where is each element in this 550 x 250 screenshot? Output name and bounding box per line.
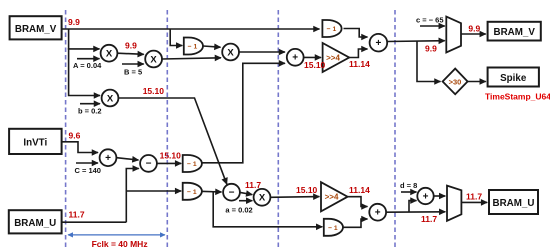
wire D1 output to Spike xyxy=(468,81,486,83)
adder P4 xyxy=(417,188,433,204)
wire constant a into X5 xyxy=(239,200,252,202)
svg-text:X: X xyxy=(107,93,114,104)
svg-text:>>4: >>4 xyxy=(326,54,340,63)
wire constant B into X2 xyxy=(122,63,144,65)
svg-text:9.9: 9.9 xyxy=(68,17,80,27)
inverter gate G3 xyxy=(183,155,202,172)
adder A1 xyxy=(100,149,117,166)
wire M2 output to multiplier X5 xyxy=(240,192,252,194)
svg-text:+: + xyxy=(423,191,429,202)
inverter gate G1 xyxy=(184,38,203,55)
wire P3 output to mux MX2 xyxy=(386,211,445,213)
subtractor M2 xyxy=(223,184,240,201)
adder P1 xyxy=(287,49,304,66)
svg-text:d = 8: d = 8 xyxy=(400,181,417,190)
svg-text:Fclk = 40 MHz: Fclk = 40 MHz xyxy=(92,239,148,249)
subtractor M1 xyxy=(140,155,157,172)
svg-text:BRAM_U: BRAM_U xyxy=(14,218,56,229)
pipeline stage dashed line 3 xyxy=(277,10,279,247)
wire bv from X3 diagonal into M2 xyxy=(118,98,226,184)
svg-text:− 1: − 1 xyxy=(188,44,198,51)
wire u up into M1 xyxy=(126,169,139,223)
wire X5 output to shifter T2 xyxy=(271,196,320,199)
Spike output box xyxy=(488,68,539,87)
svg-text:15.10: 15.10 xyxy=(160,151,182,161)
svg-text:X: X xyxy=(227,47,234,58)
wire T1 output to adder P2 xyxy=(349,49,367,58)
multiplier X4 xyxy=(222,44,239,61)
svg-text:−: − xyxy=(229,187,235,198)
svg-text:9.6: 9.6 xyxy=(69,131,81,141)
svg-text:11.14: 11.14 xyxy=(349,59,370,69)
wire P1 output to shifter T1 xyxy=(304,56,321,58)
svg-text:c = − 65: c = − 65 xyxy=(416,16,444,25)
wire v main bus from BRAM_V to inverter G2 xyxy=(62,28,320,30)
adder P2 xyxy=(370,34,388,52)
multiplier X1 xyxy=(101,45,118,62)
inverter gate G2 xyxy=(322,20,341,37)
svg-text:+: + xyxy=(292,53,298,64)
wire G1 output to X4 xyxy=(203,46,221,47)
wire v branch down to multiplier X1 xyxy=(69,29,100,49)
multiplier X3 xyxy=(102,90,119,107)
wire MX1 output to BRAM_V out xyxy=(461,33,486,35)
inverter gate G4 xyxy=(183,183,202,200)
svg-text:X: X xyxy=(150,54,157,65)
svg-text:+: + xyxy=(105,153,111,164)
svg-text:15.10: 15.10 xyxy=(304,60,326,70)
wire T2 output to adder P3 xyxy=(348,197,368,207)
BRAM_U output box xyxy=(489,190,538,214)
wire BRAM_U output xyxy=(62,221,127,223)
wire constant C into A1 xyxy=(76,162,98,164)
mux MX2 xyxy=(447,186,461,221)
wire constant A into X1 xyxy=(77,58,100,60)
wire P2 output to mux MX1 xyxy=(387,40,445,43)
svg-text:BRAM_U: BRAM_U xyxy=(493,198,535,209)
wire branch down to comparator D1 xyxy=(417,41,441,81)
svg-text:B = 5: B = 5 xyxy=(124,68,142,77)
pipeline stage dashed line 2 xyxy=(166,10,168,247)
svg-text:9.9: 9.9 xyxy=(468,23,480,33)
wire branch down to inverter G5 xyxy=(213,191,322,226)
svg-text:a = 0.02: a = 0.02 xyxy=(225,206,252,215)
svg-text:9.9: 9.9 xyxy=(125,41,137,51)
InVTi input box xyxy=(9,129,62,154)
svg-text:b = 0.2: b = 0.2 xyxy=(78,107,102,116)
wire G4 output to subtractor M2 xyxy=(200,190,221,193)
svg-text:15.10: 15.10 xyxy=(296,185,318,195)
BRAM_V output box xyxy=(488,22,541,41)
wire MX2 output to BRAM_U out xyxy=(461,201,487,203)
wire constant b into X3 xyxy=(80,103,100,105)
wire G5 output to adder P3 xyxy=(343,219,367,227)
svg-text:>>4: >>4 xyxy=(325,193,339,202)
svg-text:InVTi: InVTi xyxy=(23,137,47,148)
wire branch up to adder P4 xyxy=(409,201,417,212)
svg-text:A = 0.04: A = 0.04 xyxy=(73,61,102,70)
wire v branch down to multiplier X3 xyxy=(69,48,100,96)
svg-text:BRAM_V: BRAM_V xyxy=(494,27,536,38)
wire G2 output to adder P2 xyxy=(344,29,368,38)
wire X1 output to X2 xyxy=(117,53,143,54)
wire constant d into P4 xyxy=(401,191,417,193)
comparator D1 xyxy=(443,69,468,95)
svg-text:11.7: 11.7 xyxy=(245,180,261,190)
svg-text:11.7: 11.7 xyxy=(69,210,85,220)
wire InVTi output to adder A1 xyxy=(62,142,98,153)
wire X4 output to adder P1 xyxy=(239,51,285,53)
svg-text:BRAM_V: BRAM_V xyxy=(15,24,57,35)
wire v branch down to inverter G1 xyxy=(170,29,182,46)
shifter T2 xyxy=(321,182,348,211)
shifter T1 xyxy=(323,43,350,72)
wire P4 output to mux MX2 xyxy=(434,195,446,197)
svg-text:+: + xyxy=(375,38,381,49)
wire constant c into MX1 xyxy=(420,25,445,27)
svg-text:X: X xyxy=(106,49,113,60)
svg-text:TimeStamp_U64: TimeStamp_U64 xyxy=(485,92,550,102)
svg-text:− 1: − 1 xyxy=(187,161,197,168)
BRAM_U input box xyxy=(9,210,62,233)
svg-text:C = 140: C = 140 xyxy=(75,166,101,175)
svg-text:9.9: 9.9 xyxy=(425,44,437,54)
adder P3 xyxy=(369,204,386,221)
svg-text:15.10: 15.10 xyxy=(143,86,165,96)
BRAM_V input box xyxy=(10,16,62,39)
inverter gate G5 xyxy=(324,219,343,236)
svg-text:11.14: 11.14 xyxy=(349,185,370,195)
wire u branch to inverter G4 xyxy=(126,190,181,192)
wire X2 output to X4 xyxy=(162,58,221,59)
multiplier X5 xyxy=(254,189,271,206)
svg-text:X: X xyxy=(259,193,266,204)
multiplier X2 xyxy=(145,51,162,68)
pipeline stage dashed line 1 xyxy=(65,10,67,247)
svg-text:− 1: − 1 xyxy=(187,189,197,196)
svg-text:− 1: − 1 xyxy=(327,26,337,33)
mux MX1 xyxy=(446,17,461,53)
wire M1 output to inverter G3 xyxy=(157,162,181,164)
svg-text:11.7: 11.7 xyxy=(421,214,437,224)
svg-text:−: − xyxy=(146,159,152,170)
svg-text:+: + xyxy=(375,208,381,219)
wire G3 output up to adder P1 xyxy=(200,63,285,163)
pipeline stage dashed line 4 xyxy=(394,10,396,247)
svg-text:− 1: − 1 xyxy=(328,225,338,232)
svg-text:>30: >30 xyxy=(449,78,462,87)
svg-text:11.7: 11.7 xyxy=(466,192,482,202)
wire A1 output to subtractor M1 xyxy=(117,158,139,160)
Fclk annotation arrow xyxy=(68,234,165,236)
svg-text:Spike: Spike xyxy=(500,73,527,84)
